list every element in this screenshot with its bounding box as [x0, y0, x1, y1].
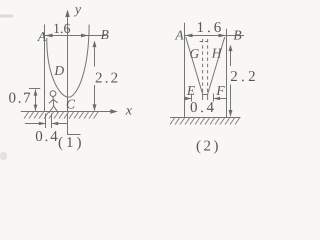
0.7 dimension fig1	[29, 88, 40, 90]
1.6 dim left arrowhead	[45, 34, 53, 38]
svg-text:1.6: 1.6	[197, 20, 225, 36]
svg-text:1.6: 1.6	[53, 22, 71, 37]
svg-text:A: A	[37, 29, 47, 44]
y-axis arrowhead	[65, 10, 70, 18]
2.2 dimension fig2	[230, 46, 232, 66]
svg-text:C: C	[66, 97, 76, 112]
left wall fig1	[44, 25, 46, 112]
0.4 dimension fig1 (below ground)	[45, 114, 47, 129]
slot bottom cap	[202, 94, 208, 96]
left wall fig2	[184, 23, 186, 118]
svg-text:B: B	[233, 28, 241, 43]
svg-text:F: F	[215, 83, 225, 98]
dashed slot lines fig2	[202, 39, 204, 95]
slot stubs to dim line	[202, 95, 204, 101]
svg-text:D: D	[53, 63, 64, 78]
x-axis arrowhead	[110, 109, 118, 113]
ground line fig2	[170, 117, 241, 119]
svg-text:(1): (1)	[58, 135, 85, 151]
svg-text:B: B	[101, 27, 109, 42]
svg-text:2.2: 2.2	[95, 71, 120, 87]
scan smudge bottom-left	[0, 152, 7, 160]
0.4 dimension fig2	[191, 94, 193, 102]
x-axis	[21, 111, 112, 113]
svg-text:2.2: 2.2	[230, 69, 259, 85]
svg-text:y: y	[73, 2, 81, 17]
svg-text:A: A	[174, 28, 184, 43]
right diagonal fig2	[208, 37, 225, 94]
1.6 arrowheads fig2	[185, 34, 193, 38]
svg-text:E: E	[186, 83, 196, 98]
person	[49, 91, 58, 113]
y-axis	[67, 16, 69, 112]
2.2 dimension fig1	[94, 42, 96, 67]
ground hatching fig1	[24, 112, 98, 119]
AB top line fig1	[45, 35, 107, 37]
parabola fig1	[47, 25, 89, 98]
svg-text:G: G	[190, 46, 200, 61]
left diagonal fig2	[186, 37, 203, 94]
svg-text:H: H	[211, 46, 223, 61]
right wall fig2	[226, 29, 228, 118]
svg-text:0.4: 0.4	[35, 129, 59, 145]
y-axis below-ground leader (L shape)	[68, 113, 81, 135]
svg-text:(2): (2)	[196, 139, 221, 155]
AB dim line fig2	[185, 35, 245, 37]
ground hatching fig2	[170, 118, 240, 125]
svg-text:x: x	[125, 104, 133, 119]
scan smudge top-left	[0, 15, 13, 18]
svg-text:0.4: 0.4	[190, 100, 217, 116]
1.6 dim right arrowhead	[81, 34, 89, 38]
slot top caps	[200, 41, 203, 43]
svg-text:0.7: 0.7	[9, 91, 33, 107]
